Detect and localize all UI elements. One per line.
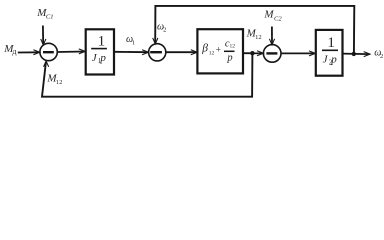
svg-text:M: M [263, 9, 274, 21]
svg-text:12: 12 [209, 50, 215, 56]
svg-text:p: p [330, 54, 337, 66]
label omega2 at S2 input [157, 21, 166, 33]
summing junction S3 [263, 45, 281, 63]
svg-text:C1: C1 [46, 14, 54, 21]
wire bottom feedback M12 to S1 [42, 53, 252, 96]
wire B12 to S3 [243, 52, 262, 54]
node M12 feedback label [46, 72, 62, 85]
wire MC1 arrow into S1 top [42, 26, 44, 45]
block U2: beta12 + c12/p [197, 29, 243, 73]
node M12 label [246, 28, 262, 41]
wire B3 to output omega2 [343, 53, 370, 56]
wire S3 to block J2p [281, 52, 314, 54]
wire S2 to block B12 [166, 51, 196, 53]
svg-text:12: 12 [230, 43, 236, 49]
label MC2 [263, 9, 282, 23]
block U1: 1/(J1 p) [86, 29, 114, 74]
svg-text:p: p [226, 52, 232, 63]
summing junction S2 [149, 44, 166, 61]
label MC1 [36, 7, 53, 20]
summing junction S1 [40, 43, 57, 60]
svg-text:2: 2 [380, 53, 383, 60]
wire top feedback omega2 to S2 [155, 6, 354, 54]
node output junction dot [352, 52, 356, 56]
node omega1 label [126, 34, 135, 47]
svg-text:β: β [201, 43, 208, 55]
svg-text:1: 1 [98, 33, 106, 49]
wire S1 to block J1p [57, 51, 84, 54]
block U3: 1/(J2 p) [316, 30, 343, 76]
wire block J1p to S2 [114, 51, 147, 53]
svg-text:2: 2 [163, 27, 166, 34]
svg-text:1: 1 [132, 40, 135, 47]
wire MC2 arrow into S3 top [271, 27, 273, 45]
svg-text:1: 1 [327, 35, 335, 51]
svg-text:д: д [12, 47, 16, 56]
svg-text:p: p [99, 52, 106, 64]
node omega2 output label [374, 47, 383, 59]
svg-text:12: 12 [56, 79, 63, 86]
wire Md to S1 [18, 51, 39, 53]
svg-text:+: + [216, 45, 221, 55]
node Md input label [3, 43, 16, 56]
node M12 junction dot [250, 51, 254, 55]
svg-text:12: 12 [255, 34, 262, 41]
svg-text:C2: C2 [274, 15, 282, 22]
